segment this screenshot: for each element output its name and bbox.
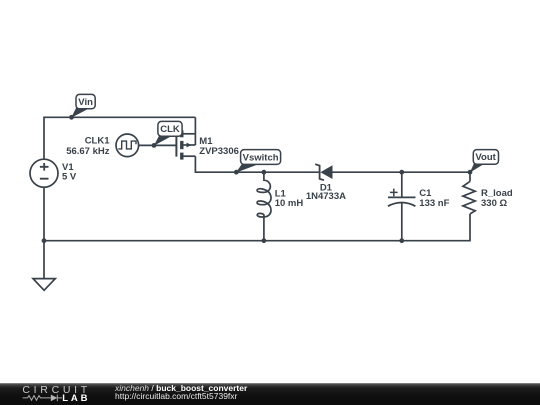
svg-text:1N4733A: 1N4733A bbox=[306, 191, 346, 202]
svg-text:CLK: CLK bbox=[160, 124, 180, 135]
svg-text:Vswitch: Vswitch bbox=[243, 152, 279, 163]
svg-text:133 nF: 133 nF bbox=[419, 198, 449, 209]
svg-text:Vin: Vin bbox=[78, 97, 93, 108]
svg-text:Vout: Vout bbox=[475, 152, 496, 163]
svg-text:5 V: 5 V bbox=[62, 172, 77, 183]
svg-text:56.67 kHz: 56.67 kHz bbox=[66, 146, 110, 157]
svg-text:CLK1: CLK1 bbox=[85, 135, 111, 146]
svg-text:LAB: LAB bbox=[62, 393, 90, 404]
svg-text:10 mH: 10 mH bbox=[275, 198, 304, 209]
svg-text:ZVP3306: ZVP3306 bbox=[199, 146, 239, 157]
svg-text:330 Ω: 330 Ω bbox=[481, 198, 507, 209]
